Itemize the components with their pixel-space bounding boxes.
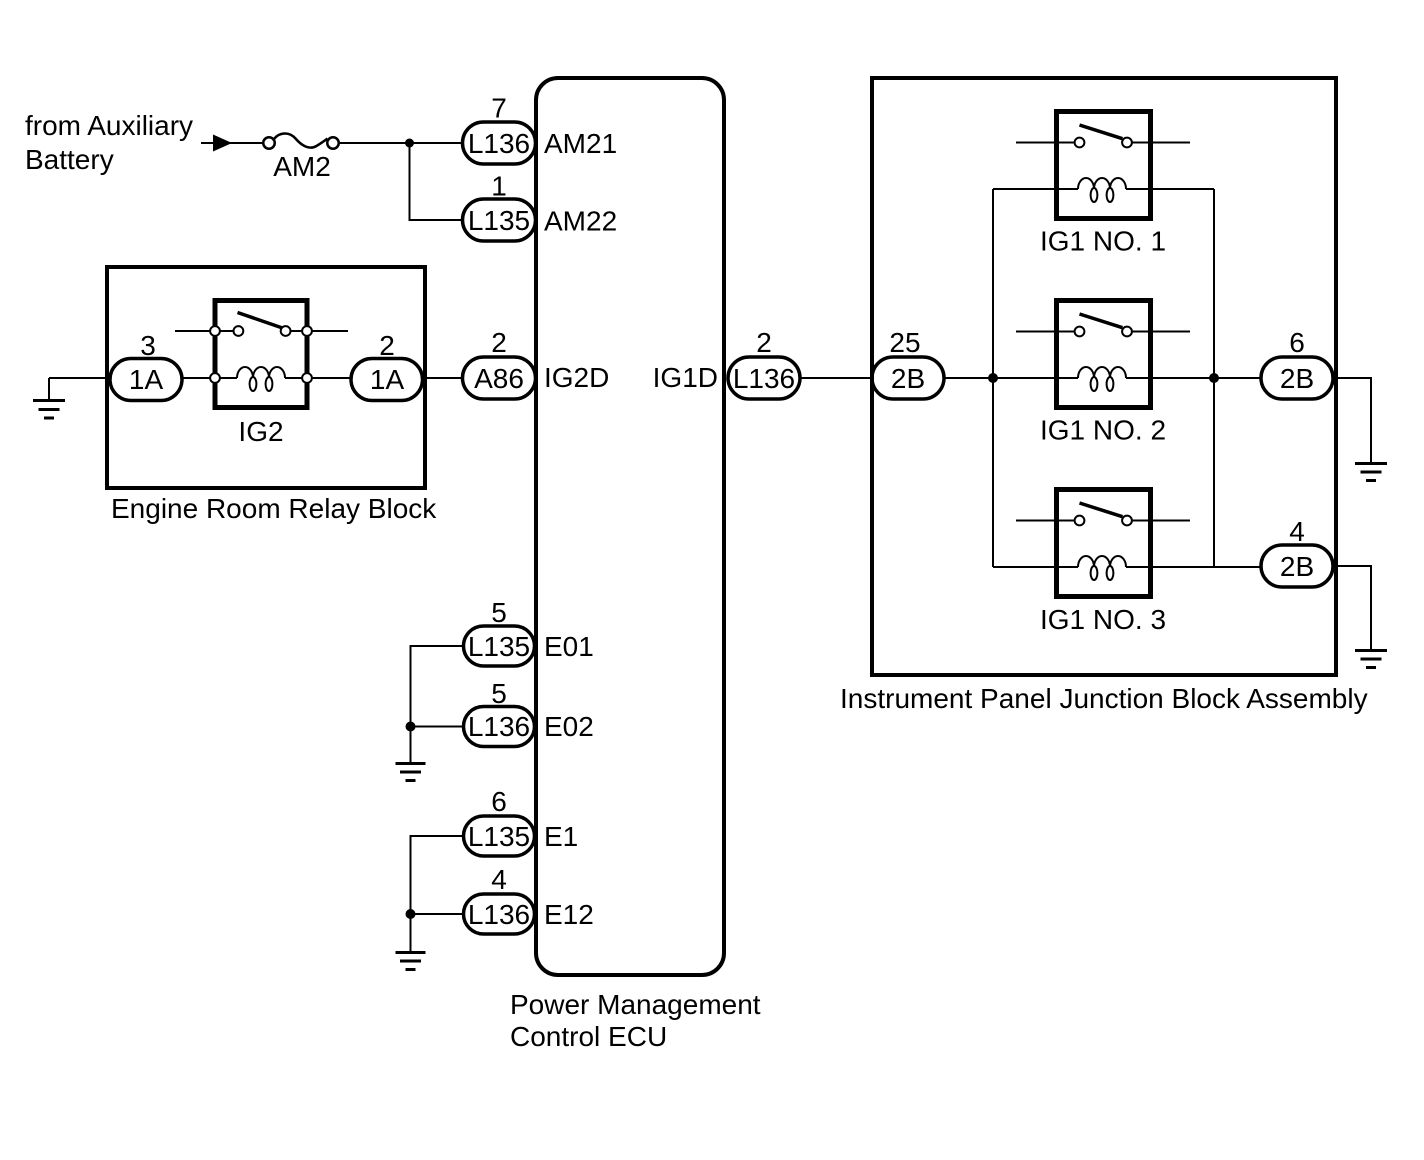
svg-text:4: 4 [491,864,507,895]
svg-text:2B: 2B [1280,363,1314,394]
wire 2B6 to ground [1333,378,1371,462]
ground G3 [396,953,426,970]
svg-text:4: 4 [1289,516,1305,547]
svg-text:L136: L136 [468,711,530,742]
svg-text:from Auxiliary: from Auxiliary [25,110,193,141]
connector 2B pin4 [1261,545,1333,587]
svg-text:L136: L136 [733,363,795,394]
svg-text:7: 7 [491,93,507,124]
svg-text:1A: 1A [129,364,164,395]
svg-text:L135: L135 [468,821,530,852]
wire E01 branch [411,646,464,727]
svg-text:L135: L135 [468,205,530,236]
relay IG1 NO.1 contacts [1075,138,1132,148]
svg-text:1: 1 [491,171,507,202]
ground G2 [396,764,426,781]
junction dot left bus [988,373,998,383]
svg-text:E01: E01 [544,631,594,662]
svg-text:IG1D: IG1D [653,362,718,393]
wire to ground G3 [410,914,412,951]
relay IG1 NO.3 contacts [1075,516,1132,526]
svg-text:Instrument Panel Junction Bloc: Instrument Panel Junction Block Assembly [840,683,1368,714]
wire right bus to 2B6 [1214,377,1261,379]
svg-text:6: 6 [1289,327,1305,358]
connector 1A pin2 [351,359,423,401]
wire coil right [285,377,302,379]
relay IG1 NO.1 coil row [993,188,1214,190]
relay IG1 NO.1 box [1057,112,1151,219]
ground G5 [1355,651,1387,668]
relay IG1 NO.3 box [1057,490,1151,597]
connector 2B pin25 [872,357,944,399]
relay IG2 coil pins [210,373,312,383]
junction dot E1 ground [406,909,416,919]
connector L135 pin1 [463,199,536,241]
svg-text:5: 5 [491,597,507,628]
relay IG1 NO.3 coil [1078,556,1126,580]
svg-text:25: 25 [889,327,920,358]
wire E12 branch [411,913,464,915]
wire L136 to 2B25 [800,377,872,379]
fuse AM2 [263,133,339,148]
relay IG2 box [215,301,307,408]
svg-text:2: 2 [491,327,507,358]
connector L136 pin2 [728,357,800,399]
wire right bus [1213,189,1215,567]
svg-text:Engine Room Relay Block: Engine Room Relay Block [111,493,437,524]
relay IG1 NO.2 switch line [1016,331,1190,333]
relay IG2 switch line [175,330,348,332]
node from Auxiliary Battery label [25,110,193,175]
wire E02 branch [411,726,464,728]
wire branch to AM22 [410,143,463,220]
wire E1 branch [411,836,464,914]
svg-text:2: 2 [379,330,395,361]
relay IG1 NO.2 coil [1078,367,1126,391]
svg-text:L136: L136 [468,899,530,930]
wire left bus [992,189,994,567]
connector 1A pin3 [110,359,182,401]
svg-text:Battery: Battery [25,144,114,175]
svg-text:IG2D: IG2D [544,362,609,393]
connector L136 pin7 [463,122,536,164]
svg-text:IG1 NO. 1: IG1 NO. 1 [1040,226,1166,257]
wire coil to 1A2 [313,377,352,379]
connector L135 pin6 [464,816,535,856]
svg-text:A86: A86 [474,363,524,394]
svg-text:AM2: AM2 [273,151,331,182]
svg-text:1A: 1A [370,364,405,395]
svg-text:AM22: AM22 [544,206,617,237]
relay IG1 NO.2 contacts [1075,327,1132,337]
svg-text:Power Management: Power Management [510,989,761,1020]
svg-text:5: 5 [491,678,507,709]
wire coil left [221,377,238,379]
wire 2B4 to ground [1333,566,1371,649]
relay IG1 NO.2 blade [1080,314,1123,328]
junction dot right bus [1209,373,1219,383]
svg-text:E1: E1 [544,821,578,852]
connector 2B pin6 [1261,357,1333,399]
caption Power Management Control ECU [510,989,761,1052]
wire battery feed stub [201,142,262,144]
svg-text:2B: 2B [1280,551,1314,582]
svg-text:E02: E02 [544,711,594,742]
Engine Room Relay Block box [107,267,425,488]
ground G4 [1355,464,1387,481]
relay IG1 NO.3 switch line [1016,520,1190,522]
relay IG2 switch blade [238,313,283,329]
svg-text:2: 2 [756,327,772,358]
ECU Power Management Control ECU box [536,78,724,975]
wire to ground G2 [410,727,412,763]
connector L136 pin5 [464,707,535,747]
wire fuse to AM21 [340,142,463,144]
wire ground to 1A pin3 [49,377,111,379]
svg-text:6: 6 [491,786,507,817]
junction dot E ground [406,722,416,732]
connector A86 pin2 [463,357,536,399]
relay IG1 NO.1 blade [1080,125,1123,139]
relay IG1 NO.1 switch line [1016,142,1190,144]
junction dot battery branch [405,139,414,148]
relay IG1 NO.3 blade [1080,503,1123,517]
wire 1A3 to coil [182,377,210,379]
svg-text:3: 3 [140,330,156,361]
wire coil2 to right bus [1126,377,1214,379]
relay IG1 NO.3 coil row [993,566,1261,568]
svg-text:IG1 NO. 3: IG1 NO. 3 [1040,604,1166,635]
svg-text:L136: L136 [468,128,530,159]
svg-text:2B: 2B [891,363,925,394]
connector L135 pin5 [464,626,535,666]
svg-text:IG1 NO. 2: IG1 NO. 2 [1040,415,1166,446]
svg-text:IG2: IG2 [238,416,283,447]
arrow power-feed [213,135,232,152]
wire 1A2 to A86 [423,377,463,379]
relay IG1 NO.2 box [1057,301,1151,408]
relay IG2 switch contacts [210,326,312,336]
svg-text:Control ECU: Control ECU [510,1021,667,1052]
wire 2B25 to relay2 [944,377,1078,379]
relay IG1 NO.1 coil [1078,178,1126,202]
svg-text:E12: E12 [544,899,594,930]
relay IG2 coil [237,367,285,391]
ground G1 [33,378,65,418]
Instrument Panel Junction Block Assembly box [872,78,1336,675]
svg-text:AM21: AM21 [544,128,617,159]
connector L136 pin4 [464,894,535,934]
svg-text:L135: L135 [468,631,530,662]
